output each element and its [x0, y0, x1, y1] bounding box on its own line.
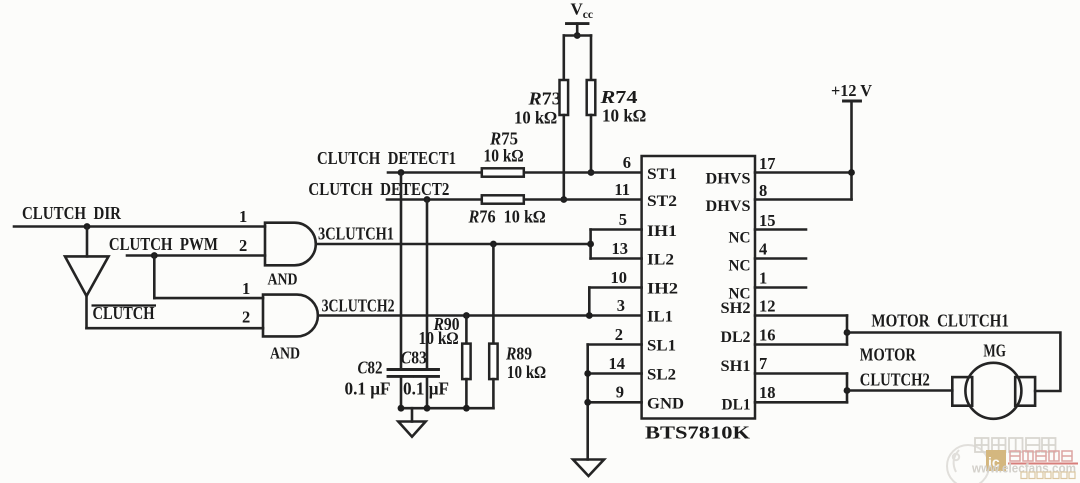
- svg-text:8: 8: [759, 181, 767, 200]
- capacitor C82: [388, 370, 412, 377]
- wire GND stub: [588, 401, 642, 404]
- svg-text:10 kΩ: 10 kΩ: [507, 362, 546, 382]
- wire NC pin4 stub: [755, 257, 806, 260]
- svg-text:6: 6: [623, 153, 631, 172]
- node R90 top on 3CLUTCH2: [463, 312, 470, 319]
- wire detect2 drop to C83: [426, 200, 429, 369]
- svg-text:13: 13: [612, 239, 629, 258]
- resistor R90: [462, 344, 470, 380]
- node +12V junction: [848, 169, 855, 176]
- svg-text:1: 1: [242, 279, 250, 298]
- svg-text:10 kΩ: 10 kΩ: [419, 328, 459, 348]
- svg-text:12: 12: [759, 297, 776, 316]
- wire DHVS pin8 stub: [755, 198, 852, 201]
- node MOTOR CLUTCH1 junction: [844, 329, 851, 336]
- svg-text:CLUTCH DETECT2: CLUTCH DETECT2: [308, 179, 449, 199]
- AND gate U2: [263, 295, 318, 337]
- wire NC pin15 stub: [755, 228, 806, 231]
- wire MOTOR CLUTCH2 to motor: [847, 389, 952, 392]
- wire C82 bottom: [400, 376, 403, 408]
- watermark small tan text: [1021, 472, 1075, 479]
- wire Vcc to R73: [562, 36, 565, 81]
- svg-text:AND: AND: [268, 270, 298, 289]
- resistor R76: [482, 195, 524, 203]
- svg-text:16: 16: [759, 326, 776, 345]
- wire R73 bottom to ST2 line: [562, 115, 565, 200]
- svg-text:4: 4: [759, 240, 767, 259]
- node detect2 tap: [424, 196, 431, 203]
- svg-text:NC: NC: [729, 230, 751, 247]
- node 3CLUTCH1 to bracket: [587, 241, 594, 248]
- svg-text:17: 17: [759, 154, 776, 173]
- svg-text:IL2: IL2: [647, 252, 674, 269]
- svg-text:SH2: SH2: [721, 300, 751, 317]
- svg-text:1: 1: [239, 207, 247, 226]
- svg-text:MG: MG: [983, 341, 1006, 361]
- svg-text:1: 1: [759, 269, 767, 288]
- svg-text:www.elecfans.com: www.elecfans.com: [971, 461, 1076, 476]
- svg-text:ST2: ST2: [647, 193, 677, 210]
- ground (filter rail): [398, 422, 425, 437]
- svg-text:MOTOR CLUTCH1: MOTOR CLUTCH1: [871, 310, 1009, 330]
- wire R74 bottom to ST1 line: [590, 115, 593, 173]
- AND gate U1: [265, 223, 316, 266]
- wire CLUTCH-bar to AND2 input 2: [87, 327, 264, 330]
- wire 3CLUTCH1 bracket: [589, 230, 592, 259]
- wire R90 bottom: [465, 379, 468, 408]
- watermark logo circle: [947, 445, 989, 483]
- power +12 V: [831, 81, 872, 101]
- svg-text:0.1 μF: 0.1 μF: [345, 378, 391, 398]
- svg-text:C82: C82: [358, 358, 383, 378]
- wire SL bracket down to ground: [586, 345, 589, 460]
- node R89 top on 3CLUTCH1: [490, 241, 497, 248]
- svg-text:3CLUTCH2: 3CLUTCH2: [322, 296, 395, 316]
- wire +12V drop: [850, 101, 853, 200]
- svg-text:5: 5: [619, 210, 627, 229]
- node R73 to ST2: [560, 196, 567, 203]
- svg-text:NC: NC: [729, 258, 751, 275]
- svg-text:7: 7: [759, 354, 767, 373]
- wire DL2 stub: [755, 343, 847, 346]
- svg-text:SL1: SL1: [647, 338, 676, 355]
- svg-text:15: 15: [759, 211, 776, 230]
- watermark ic square logo: [986, 450, 1006, 471]
- node SL2 junction: [584, 370, 591, 377]
- wire junction down to inverter: [86, 227, 89, 257]
- svg-text:10: 10: [611, 268, 628, 287]
- wire DL1 stub: [755, 401, 847, 404]
- wire R89 top: [492, 244, 495, 344]
- inverter U2 triangle: [65, 256, 109, 296]
- ground (IC): [573, 460, 604, 477]
- motor MG right brush: [1015, 377, 1035, 406]
- resistor R89: [489, 344, 497, 380]
- watermark red underline: [1008, 463, 1078, 465]
- power Vcc: [567, 0, 594, 36]
- node junction on CLUTCH DIR: [84, 223, 91, 230]
- wire R89 bottom: [492, 379, 495, 408]
- wire 3CLUTCH2 bracket: [588, 288, 591, 316]
- node R74 to ST1: [588, 169, 595, 176]
- capacitor C83: [415, 370, 439, 377]
- wire IL2 stub: [591, 257, 642, 260]
- wire SH1-DL1 bracket: [846, 374, 849, 403]
- node rail C83: [424, 405, 431, 412]
- node rail C82: [398, 405, 405, 412]
- wire SH1 stub: [755, 372, 847, 375]
- wire C83 bottom: [426, 376, 429, 408]
- wire inverter output down: [85, 296, 88, 328]
- svg-text:CLUTCH2: CLUTCH2: [860, 370, 930, 390]
- svg-text:9: 9: [616, 383, 624, 402]
- watermark red text: [1010, 451, 1072, 461]
- resistor R73: [560, 80, 569, 115]
- svg-text:10 kΩ: 10 kΩ: [514, 108, 557, 128]
- svg-text:CLUTCH DETECT1: CLUTCH DETECT1: [317, 148, 456, 168]
- wire CLUTCH PWM to AND1 input 2: [127, 254, 265, 257]
- wire CLUTCH DIR to AND1 input 1: [14, 225, 265, 228]
- wire CLUTCH DETECT2 to IC pin ST2: [387, 198, 642, 201]
- wire AND2 output 3CLUTCH2 to IC pin IL1: [318, 314, 642, 317]
- label CLUTCH (inverted): [92, 303, 157, 323]
- wire SL1 stub: [588, 343, 642, 346]
- svg-text:IL1: IL1: [647, 309, 673, 326]
- svg-text:AND: AND: [270, 344, 300, 363]
- svg-text:DHVS: DHVS: [706, 171, 751, 188]
- svg-text:3CLUTCH1: 3CLUTCH1: [318, 224, 394, 244]
- wire PWM to AND2 input 1: [154, 297, 263, 300]
- svg-text:IH1: IH1: [647, 223, 677, 240]
- wire IH2 stub: [589, 286, 641, 289]
- svg-text:2: 2: [242, 308, 250, 327]
- svg-text:DL2: DL2: [721, 329, 751, 346]
- wire MOTOR CLUTCH1 to motor: [847, 333, 1060, 392]
- svg-text:DHVS: DHVS: [706, 198, 751, 215]
- svg-text:2: 2: [615, 325, 623, 344]
- svg-text:R76 10 kΩ: R76 10 kΩ: [468, 207, 546, 227]
- wire DHVS pin17 stub: [755, 171, 852, 174]
- motor MG left brush: [952, 377, 972, 406]
- wire CLUTCH DETECT1 to IC pin ST1: [388, 171, 642, 174]
- svg-text:R73: R73: [527, 89, 561, 109]
- svg-text:3: 3: [617, 296, 625, 315]
- wire detect1 drop to C82: [400, 173, 403, 369]
- svg-text:BTS7810K: BTS7810K: [645, 423, 750, 443]
- wire SH2-DL2 bracket: [846, 316, 849, 345]
- wire SL2 stub: [588, 372, 642, 375]
- node 3CLUTCH2 to bracket: [586, 312, 593, 319]
- svg-text:CLUTCH DIR: CLUTCH DIR: [22, 203, 121, 223]
- wire ground stem: [411, 408, 414, 421]
- svg-text:R74: R74: [599, 87, 638, 107]
- svg-text:IH2: IH2: [647, 281, 678, 298]
- wire SH2 stub: [755, 314, 847, 317]
- svg-text:10 kΩ: 10 kΩ: [602, 106, 646, 126]
- wire R90 top: [465, 316, 468, 344]
- svg-text:2: 2: [239, 236, 247, 255]
- svg-text:ST1: ST1: [647, 166, 677, 183]
- svg-text:10 kΩ: 10 kΩ: [484, 146, 524, 166]
- wire Vcc to R74: [590, 36, 593, 81]
- resistor R75: [482, 168, 524, 176]
- svg-text:11: 11: [614, 180, 630, 199]
- svg-text:14: 14: [609, 354, 626, 373]
- resistor R74: [587, 80, 596, 115]
- svg-text:SH1: SH1: [721, 358, 751, 375]
- node detect1 tap: [398, 169, 405, 176]
- wire AND1 output 3CLUTCH1: [316, 243, 591, 246]
- svg-text:DL1: DL1: [722, 397, 751, 414]
- node MOTOR CLUTCH2 junction: [844, 387, 851, 394]
- wire PWM junction down: [153, 256, 156, 299]
- wire IH1 stub: [591, 228, 642, 231]
- node rail R90: [463, 405, 470, 412]
- IC U3 BTS7810K body: [642, 156, 755, 419]
- svg-text:+12 V: +12 V: [831, 81, 872, 100]
- node junction on CLUTCH PWM: [151, 252, 158, 259]
- svg-text:C83: C83: [401, 348, 427, 368]
- watermark glyph row big: [975, 438, 1056, 452]
- node GND junction: [584, 399, 591, 406]
- svg-text:SL2: SL2: [647, 367, 676, 384]
- svg-text:R89: R89: [505, 344, 532, 364]
- wire ground rail: [401, 407, 493, 410]
- svg-text:18: 18: [759, 383, 776, 402]
- svg-text:MOTOR: MOTOR: [860, 345, 916, 365]
- wire Vcc tee: [564, 34, 591, 37]
- svg-text:CLUTCH PWM: CLUTCH PWM: [109, 234, 218, 254]
- node Vcc junction: [574, 32, 581, 39]
- wire NC pin1 stub: [755, 286, 806, 289]
- motor MG circle: [965, 363, 1021, 419]
- svg-text:GND: GND: [647, 395, 684, 412]
